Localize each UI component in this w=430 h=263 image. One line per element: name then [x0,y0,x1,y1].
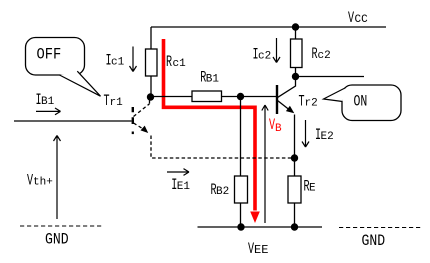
svg-text:th+: th+ [33,176,53,188]
svg-text:GND: GND [45,231,69,248]
svg-text:r1: r1 [110,97,124,109]
svg-text:E2: E2 [321,131,334,143]
svg-text:B1: B1 [206,74,220,86]
svg-text:c2: c2 [258,51,271,63]
svg-text:CC: CC [355,14,369,26]
svg-text:c2: c2 [318,50,331,62]
svg-text:ON: ON [354,93,368,111]
svg-text:B2: B2 [216,186,229,198]
svg-text:r2: r2 [305,98,318,110]
svg-text:V: V [348,10,354,28]
svg-text:EE: EE [254,243,268,257]
svg-text:E: E [309,183,316,195]
svg-text:c1: c1 [111,57,125,69]
svg-text:E1: E1 [177,181,191,193]
svg-text:c1: c1 [173,58,187,70]
svg-text:GND: GND [362,233,386,250]
svg-text:R: R [166,54,172,72]
svg-text:OFF: OFF [37,47,62,64]
svg-text:B: B [275,123,282,135]
svg-text:B1: B1 [41,96,55,108]
